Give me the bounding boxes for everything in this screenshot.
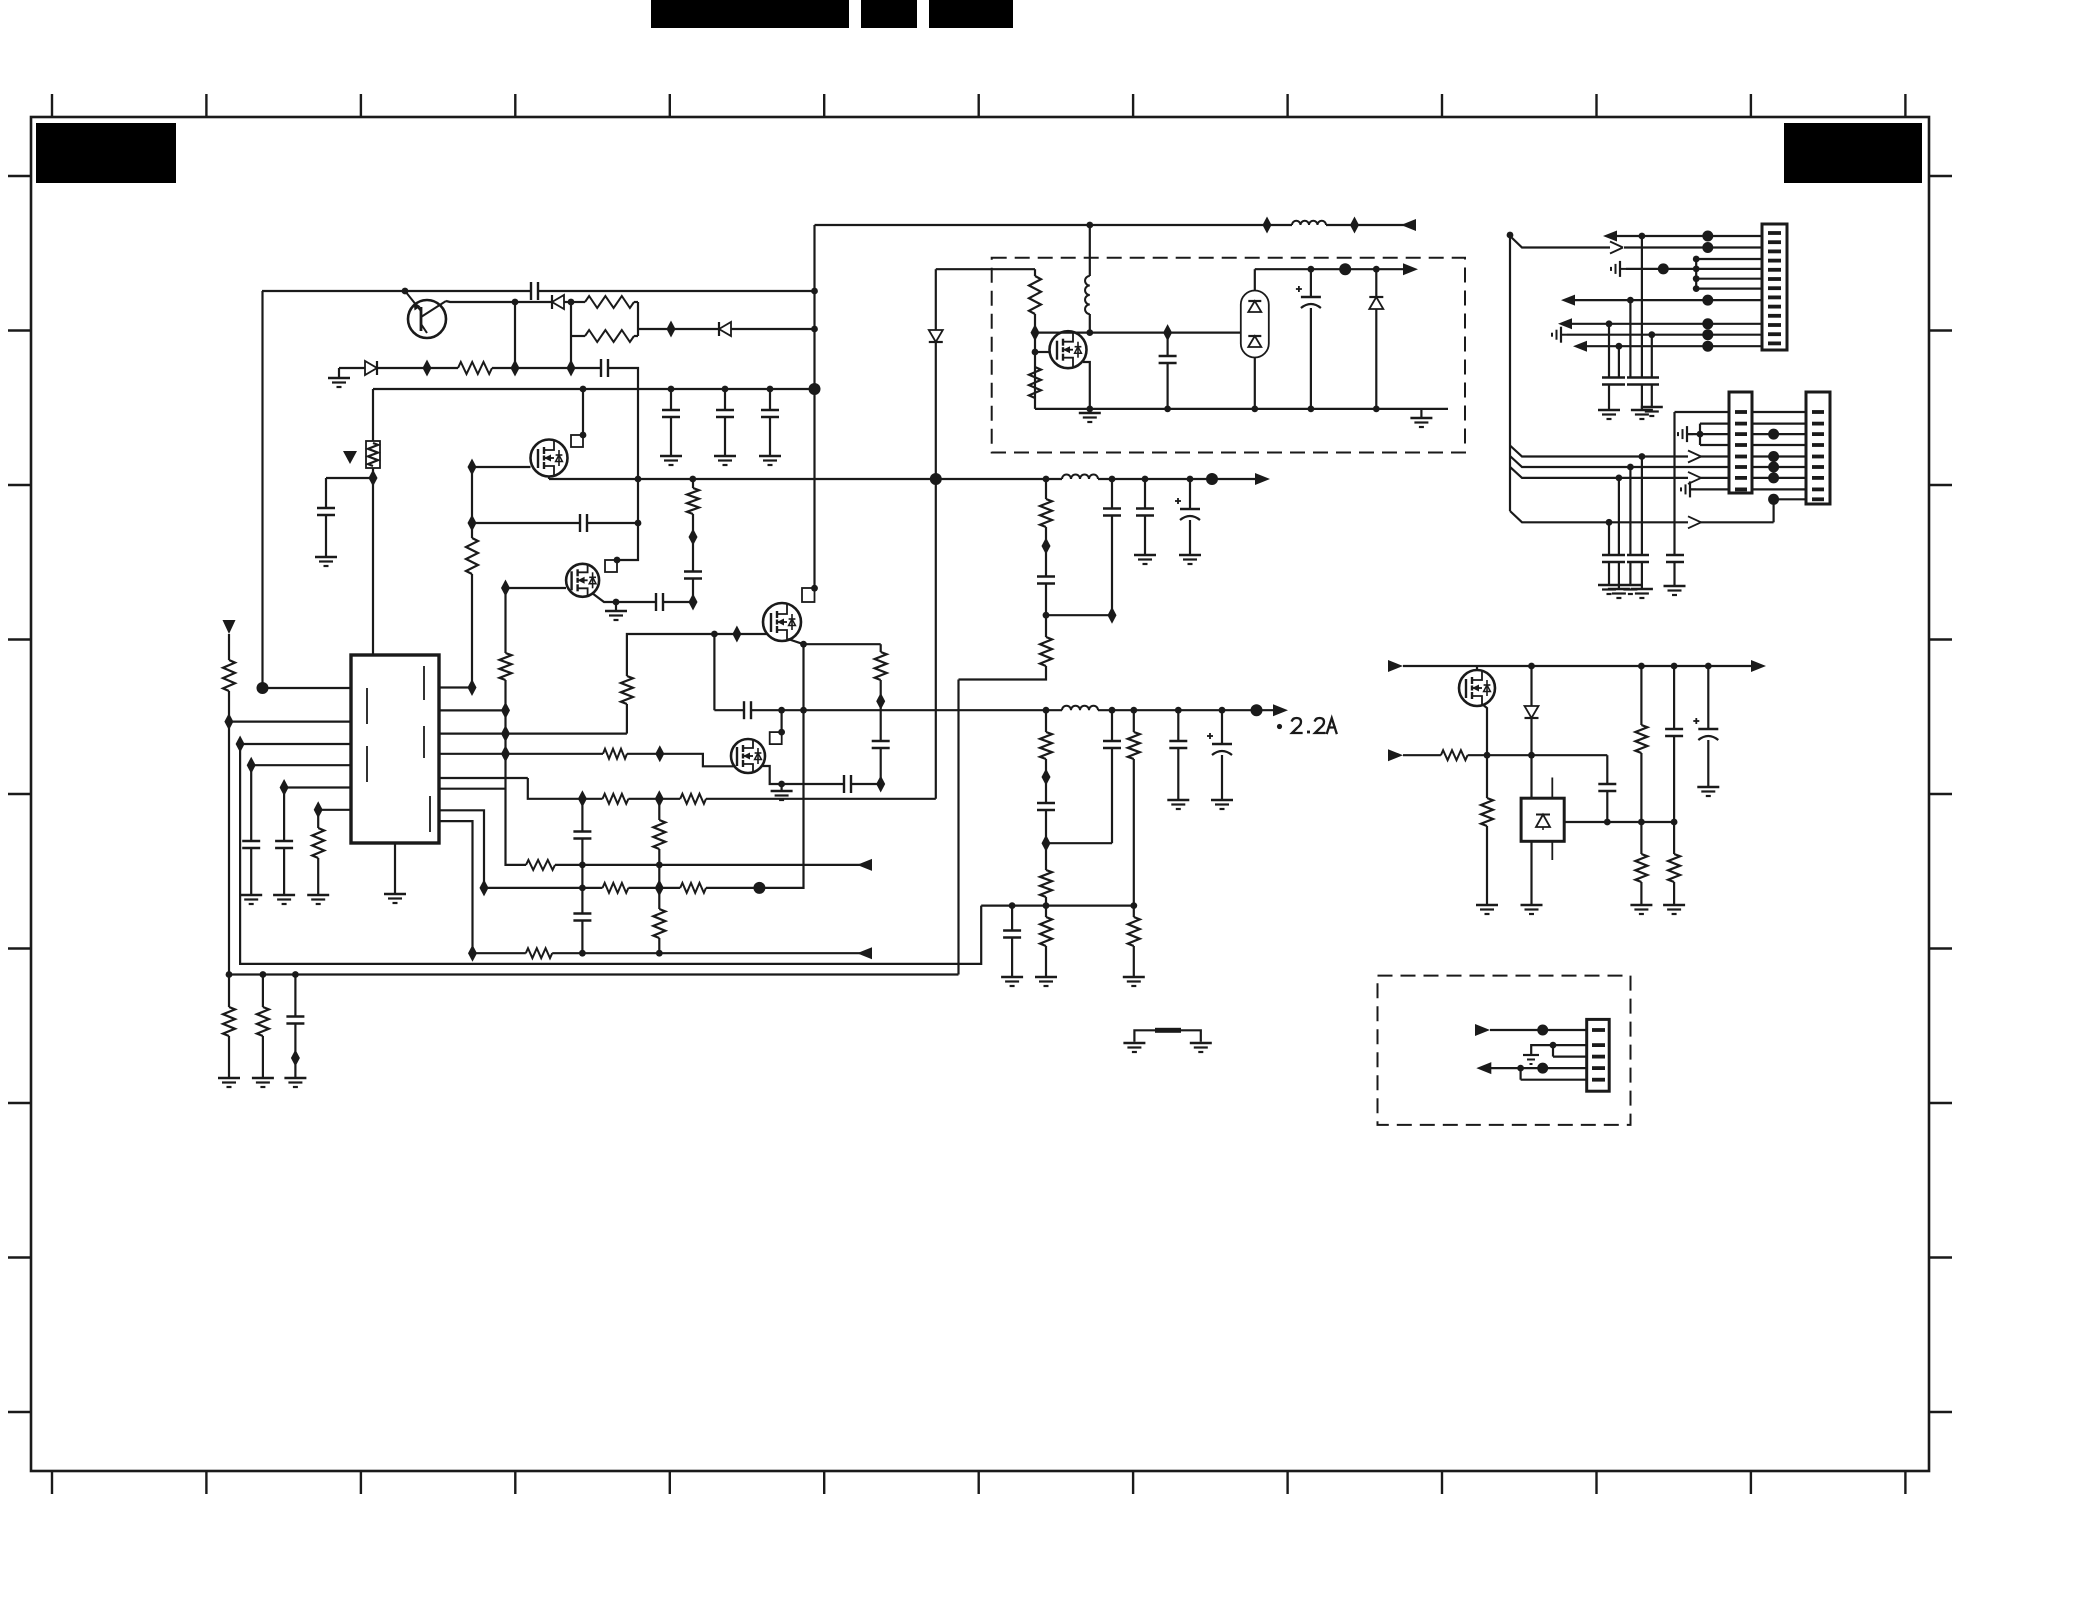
- arrow: [1558, 318, 1572, 329]
- chassis ground: [1686, 426, 1688, 442]
- wire: [1552, 1045, 1554, 1057]
- wire: [788, 639, 804, 644]
- wire: [1624, 246, 1762, 248]
- arrow: [857, 947, 872, 959]
- resistor R25: [1045, 843, 1047, 870]
- marker B1: [343, 451, 357, 464]
- wire: [1700, 444, 1729, 446]
- capacitor C21: [1111, 710, 1113, 741]
- resistor R16: [603, 883, 629, 893]
- wire: [1090, 332, 1241, 334]
- wire: [1166, 363, 1168, 409]
- gate square: [802, 588, 815, 602]
- wire: [815, 224, 1293, 226]
- wire: [446, 301, 515, 302]
- capacitor C27: [1598, 783, 1616, 785]
- ground: [1123, 1042, 1145, 1044]
- wire: [581, 921, 583, 954]
- wire: [581, 839, 583, 888]
- capacitor C14: [843, 775, 845, 793]
- capacitor C17: [1111, 479, 1113, 509]
- wire: [1640, 753, 1642, 822]
- wire: [608, 368, 638, 560]
- capacitor C11: [573, 912, 591, 914]
- resistor R23: [1045, 615, 1047, 637]
- wire: [692, 479, 694, 488]
- wire: [637, 302, 639, 336]
- wire: [555, 864, 871, 866]
- wire: [582, 389, 584, 435]
- wire: [1530, 718, 1532, 798]
- resistor R3: [571, 335, 585, 337]
- wire: [1617, 235, 1762, 237]
- wire: [1045, 810, 1047, 843]
- ground: [250, 848, 252, 894]
- wire: [1035, 408, 1448, 410]
- capacitor C32: [1666, 554, 1684, 556]
- mosfet Q7: [1459, 670, 1495, 706]
- wire: [1254, 269, 1256, 290]
- ground: [1420, 409, 1422, 417]
- wire: [658, 849, 660, 888]
- ground: [1641, 562, 1643, 588]
- wire: [1403, 665, 1753, 667]
- wire: [1575, 299, 1762, 301]
- diode D6: [1525, 706, 1539, 718]
- wire: [714, 633, 767, 635]
- gate square: [770, 732, 782, 744]
- wire: [1530, 841, 1532, 904]
- wire: [515, 301, 552, 303]
- arrow: [1688, 451, 1701, 457]
- wire: [851, 783, 881, 785]
- resistor R5: [692, 514, 694, 537]
- wire: [1696, 278, 1762, 280]
- wire: [1572, 323, 1762, 325]
- mosfet Q3: [566, 564, 599, 597]
- diode D1: [365, 361, 377, 375]
- mosfet Q2: [531, 440, 568, 477]
- wire: [1476, 666, 1478, 670]
- wire: [1045, 527, 1047, 577]
- wire: [1045, 759, 1047, 803]
- mosfet Q5: [731, 739, 765, 773]
- gate square: [571, 435, 583, 447]
- inductor L4: [1085, 276, 1090, 314]
- node: [1768, 429, 1779, 440]
- wire: [1510, 467, 1688, 478]
- chassis ground: [1689, 481, 1691, 497]
- wire: [1696, 288, 1762, 290]
- resistor R19: [228, 975, 230, 1008]
- resistor R22: [1045, 479, 1047, 499]
- wire: [439, 709, 506, 711]
- wire: [1752, 455, 1806, 457]
- capacitor C6: [655, 593, 657, 611]
- diode D2: [551, 295, 553, 309]
- resistor R4: [466, 538, 478, 574]
- wire: [1606, 791, 1608, 822]
- wire: [229, 973, 959, 975]
- wire: [1510, 456, 1729, 467]
- resistor R29: [1034, 269, 1036, 276]
- wire: [1752, 477, 1806, 479]
- wire: [251, 764, 351, 766]
- wire: [1618, 478, 1620, 555]
- wire: [1700, 521, 1774, 523]
- capacitor C3: [325, 478, 327, 508]
- wire: [326, 477, 373, 479]
- resistor R1: [458, 362, 492, 374]
- capacitor bank C30: [1602, 376, 1625, 378]
- wire: [706, 798, 936, 800]
- ground: [1133, 946, 1135, 976]
- ground: [615, 602, 617, 610]
- capacitor C12: [294, 975, 296, 1017]
- resistor R8: [317, 810, 319, 828]
- ground: [1221, 755, 1223, 799]
- ground: [394, 843, 396, 893]
- ground: [1011, 938, 1013, 977]
- wire: [552, 952, 871, 954]
- wire: [1098, 478, 1256, 480]
- wire: [1696, 258, 1762, 260]
- wire: [1046, 842, 1112, 844]
- capacitor C15: [743, 701, 745, 719]
- resistor R13: [526, 860, 555, 870]
- resistor R24: [1045, 710, 1047, 732]
- wire: [1490, 1067, 1587, 1069]
- wire: [473, 952, 526, 954]
- inductor L1: [1292, 221, 1326, 225]
- wire: [228, 691, 230, 975]
- capacitor C22: [1177, 710, 1179, 741]
- wire: [1651, 335, 1653, 378]
- capacitor C9: [283, 788, 285, 842]
- wire: [880, 748, 882, 784]
- arrow: [857, 859, 872, 871]
- wire: [372, 468, 374, 656]
- ground: [1608, 385, 1610, 410]
- wire: [880, 680, 882, 741]
- wire: [935, 342, 937, 479]
- wire: [506, 753, 604, 755]
- resistor R34: [1640, 822, 1642, 854]
- wire: [373, 388, 815, 390]
- wire: [762, 766, 782, 784]
- node: [1768, 472, 1779, 483]
- chassis ground: [1619, 261, 1621, 277]
- wire: [628, 887, 680, 889]
- capacitor C13: [872, 740, 890, 742]
- wire: [813, 225, 815, 588]
- resistor R12: [680, 794, 706, 804]
- jumper J1: [1134, 1030, 1200, 1041]
- wire: [284, 786, 351, 788]
- diode D4: [929, 330, 943, 342]
- wire: [935, 479, 937, 799]
- wire: [439, 810, 484, 888]
- wire: [1772, 499, 1774, 522]
- capacitor C4c: [769, 389, 771, 410]
- wire: [1098, 709, 1274, 711]
- diode D3: [718, 322, 720, 336]
- ground: [262, 1036, 264, 1077]
- arrow: [1273, 704, 1288, 716]
- wire: [1403, 754, 1441, 756]
- wire: [439, 753, 506, 755]
- node: [1768, 462, 1779, 473]
- arrow: [1476, 1062, 1491, 1074]
- diode D5: [1369, 296, 1383, 298]
- capacitor C7: [692, 579, 694, 603]
- wire: [713, 634, 715, 710]
- wire: [782, 783, 844, 785]
- wire: [627, 634, 715, 676]
- wire: [731, 328, 815, 330]
- ground: [1707, 740, 1709, 786]
- ground: [780, 784, 782, 790]
- arrow: [1401, 219, 1416, 231]
- arrow: [1403, 263, 1418, 275]
- wire: [957, 680, 959, 975]
- dual diode OD1: [1241, 291, 1269, 358]
- wire: [1254, 358, 1256, 409]
- wire: [1510, 236, 1610, 248]
- wire: [1035, 351, 1050, 353]
- wire: [240, 743, 351, 745]
- wire: [751, 709, 1062, 711]
- wire: [570, 302, 572, 368]
- wire: [663, 601, 693, 603]
- wire: [1675, 411, 1730, 413]
- ground: [325, 515, 327, 556]
- wire: [592, 593, 616, 602]
- wire: [1700, 455, 1729, 457]
- capacitor C1: [530, 282, 532, 300]
- wire: [1468, 754, 1608, 756]
- resistor R11: [603, 794, 629, 804]
- wire: [1111, 748, 1113, 843]
- wire: [1519, 1068, 1521, 1080]
- chassis ground: [1560, 327, 1562, 343]
- TL431 U2: [1521, 798, 1564, 841]
- wire: [261, 291, 263, 688]
- ground: [1144, 516, 1146, 555]
- wire: [1111, 516, 1113, 616]
- wire: [628, 798, 680, 800]
- resistor R32: [1441, 750, 1468, 760]
- capacitor C16: [1037, 575, 1055, 577]
- arrow: [1561, 295, 1575, 306]
- ground: [338, 368, 340, 377]
- bus wire: [1695, 259, 1697, 289]
- resistor R14: [658, 799, 660, 820]
- capacitor C19: [1189, 479, 1191, 509]
- capacitor C4b: [724, 389, 726, 410]
- wire: [472, 522, 580, 524]
- wire: [1641, 457, 1643, 556]
- wire: [1629, 300, 1631, 377]
- wire: [1752, 444, 1806, 446]
- wire: [638, 328, 719, 330]
- wire: [1774, 498, 1806, 500]
- wire: [1326, 224, 1414, 226]
- wire: [538, 290, 815, 292]
- wire: [1045, 897, 1047, 906]
- wire: [1490, 1029, 1587, 1031]
- wire: [1700, 423, 1729, 425]
- arrow: [1255, 473, 1270, 485]
- capacitor C18: [1144, 479, 1146, 509]
- resistor R30: [1029, 367, 1041, 398]
- wire: [1618, 346, 1620, 377]
- chassis ground 2: [1523, 1054, 1539, 1056]
- capacitor C26: [1310, 269, 1312, 297]
- wire: [1673, 412, 1675, 554]
- node: [1768, 451, 1779, 462]
- wire: [504, 588, 506, 653]
- wire: [1255, 268, 1404, 270]
- wire: [1035, 332, 1090, 334]
- wire: [506, 680, 527, 865]
- wire: [804, 643, 881, 645]
- resistor R7: [228, 634, 230, 660]
- arrow: [1573, 341, 1587, 352]
- ground: [1641, 385, 1643, 410]
- wire: [1700, 477, 1729, 479]
- wire: [936, 268, 1035, 270]
- wire: [1089, 314, 1091, 333]
- wire: [959, 666, 1047, 680]
- wire: [1567, 334, 1762, 336]
- wire: [981, 904, 1134, 906]
- wire: [484, 887, 603, 889]
- wire: [1034, 314, 1036, 409]
- wire: [1752, 488, 1806, 490]
- wire: [1089, 225, 1091, 276]
- gate square: [605, 560, 617, 572]
- wire: [1587, 345, 1762, 347]
- ground: [317, 858, 319, 894]
- wire: [318, 809, 351, 811]
- wire: [616, 601, 656, 603]
- wire: [1687, 433, 1729, 435]
- wire: [439, 788, 506, 790]
- resistor R35: [1673, 822, 1675, 854]
- wire: [1083, 362, 1090, 409]
- connector CN1: [1762, 224, 1787, 350]
- wire: [471, 574, 473, 688]
- mosfet Q4: [763, 603, 801, 641]
- wire: [692, 537, 694, 572]
- wire: [780, 710, 782, 732]
- connector CN3: [1806, 392, 1830, 504]
- resistor R26: [1133, 710, 1135, 732]
- resistor R18: [526, 948, 552, 958]
- zener Z1: [366, 441, 380, 468]
- resistor R27: [1045, 906, 1047, 917]
- capacitor C29: [1707, 666, 1709, 729]
- wire: [1531, 1045, 1587, 1055]
- wire: [528, 778, 603, 799]
- arrow: [1751, 660, 1766, 672]
- dashed box: [1378, 976, 1631, 1125]
- wire: [1510, 511, 1688, 522]
- bus wire: [1699, 424, 1701, 445]
- wire: [1530, 666, 1532, 706]
- arrow: [1475, 1024, 1490, 1036]
- wire: [1690, 488, 1729, 490]
- wire: [1629, 467, 1631, 555]
- ground: [1190, 1042, 1212, 1044]
- wire: [439, 777, 528, 779]
- ground: [1629, 562, 1631, 584]
- ground: [1673, 882, 1675, 904]
- wire: [294, 1024, 296, 1078]
- ground: [724, 417, 726, 455]
- ground: [670, 417, 672, 455]
- wire: [240, 744, 981, 964]
- wire: [1606, 755, 1608, 784]
- ground: [1673, 562, 1675, 585]
- wire: [1045, 584, 1047, 616]
- capacitor C4a: [670, 389, 672, 410]
- wire: [1133, 759, 1135, 906]
- arrow: [1688, 516, 1701, 522]
- wire: [1752, 423, 1806, 425]
- resistor R21: [880, 644, 882, 652]
- wire: [548, 477, 550, 480]
- wire: [1752, 466, 1806, 468]
- ground: [1651, 385, 1653, 407]
- resistor R31: [1486, 755, 1488, 798]
- wire: [439, 732, 506, 734]
- ground: [1608, 562, 1610, 584]
- wire: [627, 754, 734, 767]
- capacitor C20: [1037, 802, 1055, 804]
- resistor R28: [1133, 906, 1135, 917]
- wire: [1626, 268, 1762, 270]
- ground: [1486, 826, 1488, 904]
- inductor L3: [1062, 706, 1098, 711]
- wire: [471, 467, 473, 538]
- wire: [263, 687, 352, 689]
- ground: [228, 1036, 230, 1077]
- ground: [283, 848, 285, 894]
- capacitor C24: [1011, 906, 1013, 931]
- resistor R15: [658, 888, 660, 909]
- wire: [262, 290, 531, 292]
- arrow: [1688, 472, 1701, 478]
- wire: [1608, 324, 1610, 378]
- wire: [492, 367, 601, 369]
- ground: [769, 417, 771, 455]
- wire: [229, 720, 351, 722]
- arrow: [1603, 231, 1617, 242]
- wire: [339, 367, 365, 369]
- capacitor C28: [1673, 666, 1675, 729]
- wire: [1752, 411, 1806, 413]
- wire: [506, 732, 627, 734]
- bus wire: [1509, 235, 1511, 511]
- ground: [1079, 412, 1101, 414]
- resistor R33: [1640, 666, 1642, 725]
- resistor R9: [626, 704, 628, 734]
- arrow: [1610, 242, 1623, 248]
- capacitor C5: [579, 514, 581, 532]
- wire: [1510, 446, 1688, 457]
